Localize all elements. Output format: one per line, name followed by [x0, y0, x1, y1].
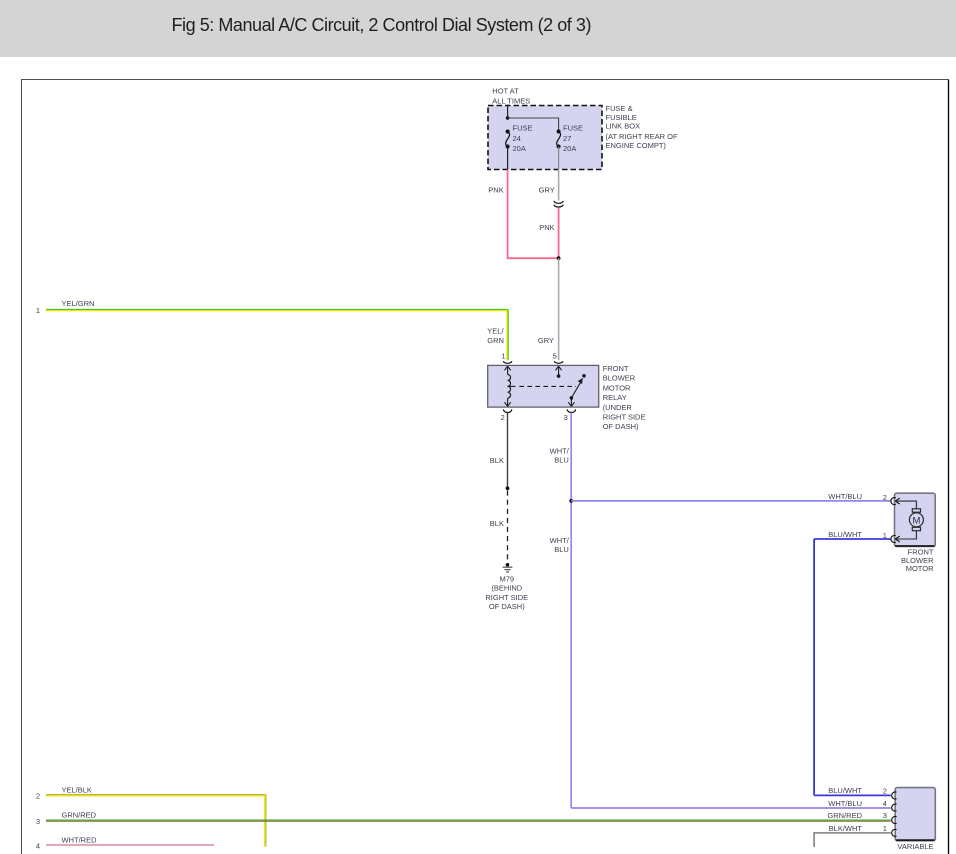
svg-text:WHT/BLU: WHT/BLU	[828, 492, 862, 501]
svg-text:27: 27	[563, 134, 571, 143]
svg-text:4: 4	[883, 799, 887, 808]
svg-text:YEL/GRN: YEL/GRN	[62, 299, 95, 308]
svg-text:GRN: GRN	[487, 336, 504, 345]
svg-text:FUSIBLE: FUSIBLE	[606, 113, 637, 122]
svg-text:2: 2	[883, 493, 887, 502]
svg-text:WHT/: WHT/	[550, 447, 570, 456]
svg-text:5: 5	[553, 351, 557, 360]
svg-text:BLOWER: BLOWER	[603, 374, 636, 383]
svg-text:FUSE: FUSE	[563, 124, 583, 133]
svg-text:M: M	[912, 515, 920, 526]
svg-text:1: 1	[501, 351, 505, 360]
svg-text:(UNDER: (UNDER	[603, 403, 633, 412]
svg-text:2: 2	[501, 413, 505, 422]
svg-text:MOTOR: MOTOR	[603, 383, 631, 392]
svg-text:ENGINE COMPT): ENGINE COMPT)	[606, 141, 667, 150]
svg-text:GRN/RED: GRN/RED	[62, 811, 97, 820]
svg-text:BLK: BLK	[490, 519, 504, 528]
svg-text:RELAY: RELAY	[603, 393, 627, 402]
svg-text:WHT/BLU: WHT/BLU	[828, 799, 862, 808]
svg-text:(AT RIGHT REAR OF: (AT RIGHT REAR OF	[606, 132, 679, 141]
svg-text:GRY: GRY	[538, 336, 554, 345]
svg-text:BLU/WHT: BLU/WHT	[828, 530, 862, 539]
svg-text:20A: 20A	[563, 144, 576, 153]
svg-text:YEL/: YEL/	[487, 326, 504, 335]
svg-text:GRY: GRY	[539, 185, 555, 194]
svg-text:3: 3	[883, 811, 887, 820]
svg-text:OF DASH): OF DASH)	[603, 422, 639, 431]
svg-text:GRN/RED: GRN/RED	[827, 811, 862, 820]
svg-text:BLU: BLU	[554, 456, 569, 465]
svg-text:MOTOR: MOTOR	[906, 564, 934, 573]
svg-text:FUSE &: FUSE &	[606, 104, 633, 113]
svg-text:BLU/WHT: BLU/WHT	[828, 786, 862, 795]
svg-text:LINK BOX: LINK BOX	[606, 122, 641, 131]
svg-text:HOT AT: HOT AT	[492, 87, 519, 96]
svg-text:OF DASH): OF DASH)	[489, 602, 525, 611]
svg-text:VARIABLE: VARIABLE	[897, 842, 933, 851]
svg-text:BLK/WHT: BLK/WHT	[829, 824, 863, 833]
svg-text:RIGHT SIDE: RIGHT SIDE	[485, 593, 528, 602]
svg-text:RIGHT SIDE: RIGHT SIDE	[603, 413, 646, 422]
svg-text:M79: M79	[500, 575, 515, 584]
svg-text:(BEHIND: (BEHIND	[491, 584, 522, 593]
svg-text:3: 3	[564, 413, 568, 422]
svg-text:WHT/RED: WHT/RED	[62, 836, 98, 845]
svg-text:BLK: BLK	[490, 456, 504, 465]
svg-text:YEL/BLK: YEL/BLK	[62, 785, 92, 794]
svg-text:ALL TIMES: ALL TIMES	[492, 96, 530, 105]
svg-text:WHT/: WHT/	[550, 536, 570, 545]
svg-text:PNK: PNK	[539, 223, 554, 232]
svg-text:FRONT: FRONT	[603, 364, 629, 373]
svg-text:3: 3	[36, 817, 40, 826]
svg-text:4: 4	[36, 842, 40, 851]
svg-text:PNK: PNK	[488, 185, 503, 194]
svg-text:1: 1	[36, 306, 40, 315]
svg-text:20A: 20A	[513, 144, 526, 153]
svg-text:2: 2	[883, 786, 887, 795]
svg-text:24: 24	[513, 134, 521, 143]
svg-text:1: 1	[883, 824, 887, 833]
svg-text:FUSE: FUSE	[513, 124, 533, 133]
svg-text:2: 2	[36, 792, 40, 801]
svg-text:BLU: BLU	[554, 545, 569, 554]
